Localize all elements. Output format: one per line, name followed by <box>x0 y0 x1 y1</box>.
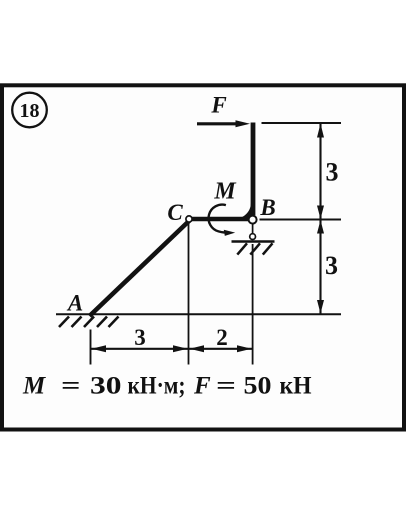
extension line from bar top to right <box>262 122 342 124</box>
arrowheads meeting at B level <box>317 206 324 220</box>
svg-text:кН·м;: кН·м; <box>128 373 186 400</box>
svg-text:=: = <box>61 373 81 400</box>
hatching of A support <box>59 317 119 328</box>
hatching of B support <box>237 243 272 254</box>
force F arrow <box>197 120 250 127</box>
svg-text:2: 2 <box>216 325 228 350</box>
diagonal bar A-C <box>90 221 190 317</box>
svg-text:3: 3 <box>326 158 339 187</box>
moment arc at C <box>209 205 236 236</box>
ground line of B support <box>232 240 275 243</box>
vertical bar (B to top) <box>251 123 256 216</box>
extension tick below A <box>90 330 92 365</box>
svg-text:3: 3 <box>134 325 146 350</box>
svg-text:M: M <box>213 178 237 204</box>
svg-text:=: = <box>216 373 236 400</box>
arrowheads of bottom dimension 2 <box>190 345 205 352</box>
svg-text:3: 3 <box>325 251 338 280</box>
arrowhead up at top of right dimension <box>317 124 324 138</box>
svg-text:кН: кН <box>280 373 313 400</box>
fillet wedge at B joint <box>240 203 251 218</box>
lower pin circle of B support <box>250 234 256 240</box>
arrowheads of bottom dimension 3 <box>92 345 107 352</box>
svg-text:B: B <box>259 195 275 220</box>
svg-text:50: 50 <box>244 373 272 400</box>
svg-text:18: 18 <box>20 100 40 122</box>
svg-text:F: F <box>210 92 226 117</box>
ground line at A (extends right as extension line) <box>56 313 341 315</box>
svg-text:A: A <box>66 291 83 316</box>
svg-text:M: M <box>22 373 46 400</box>
caption M = 30 kN*m; F = 50 kN <box>22 373 312 400</box>
svg-text:C: C <box>167 200 183 225</box>
arrowhead down at bottom of right dimension <box>317 300 324 314</box>
right dimension line <box>319 123 321 314</box>
support link below B <box>252 224 254 234</box>
extension line below C <box>188 223 190 365</box>
svg-text:F: F <box>193 373 211 400</box>
extension line at B level to right <box>260 219 342 221</box>
svg-text:30: 30 <box>90 373 122 400</box>
pin circle at B <box>249 216 257 224</box>
bottom dimension line <box>91 348 253 350</box>
frame border of figure <box>2 85 404 429</box>
pin circle at C <box>186 216 192 222</box>
extension line below B support <box>252 244 254 365</box>
badge circle 18 <box>12 93 47 128</box>
horizontal bar C-B <box>189 217 250 222</box>
